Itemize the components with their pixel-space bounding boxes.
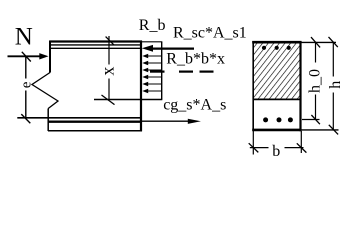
compressed rebar dots (262, 46, 291, 50)
cross-section hatch (compression zone) (254, 44, 300, 99)
stress arrow 2 (142, 61, 161, 66)
svg-text:R_b: R_b (139, 17, 166, 34)
tension steel force arrow cg_s*A_s (142, 119, 201, 124)
tick at right of b (297, 143, 307, 152)
tick at bottom of h (329, 125, 338, 135)
hatch bottom boundary (compression depth line) (253, 98, 301, 100)
tick at top of h_0 (311, 37, 320, 47)
dimension line h (332, 42, 334, 130)
tick at bottom of e dimension (21, 114, 30, 123)
break zigzag (32, 73, 58, 109)
column left edge lower (47, 109, 49, 132)
dashed leader under R_b*b*x (150, 70, 214, 72)
svg-text:R_sc*A_s1: R_sc*A_s1 (173, 25, 247, 42)
stress arrow 1 (142, 54, 161, 59)
tick at top of x dimension (106, 37, 114, 45)
tick at top of e dimension (22, 52, 31, 62)
column top plate (50, 42, 143, 49)
cross-section outline (252, 41, 301, 131)
column left edge upper (49, 41, 51, 73)
svg-text:R_b*b*x: R_b*b*x (166, 50, 225, 67)
svg-text:cg_s*A_s: cg_s*A_s (163, 96, 226, 113)
stress block right boundary (161, 42, 163, 100)
tick at left of b (249, 143, 259, 152)
svg-text:h: h (327, 81, 344, 89)
stress arrow 3 (142, 68, 161, 73)
stress arrow 5 (142, 82, 161, 87)
force arrow N (8, 53, 49, 59)
column right edge (140, 41, 142, 132)
compressed steel force arrow R_sc*A_s1 (142, 45, 194, 52)
x dimension line (108, 36, 110, 100)
stress arrow 4 (142, 75, 161, 80)
stress block bottom line (94, 99, 162, 101)
stress block top line (142, 41, 162, 43)
svg-text:x: x (97, 67, 117, 76)
svg-text:N: N (15, 24, 33, 51)
dimension line h_0 (315, 42, 317, 119)
b dimension line (250, 147, 304, 149)
rebar level extension line (302, 119, 320, 121)
column bottom plate (17, 118, 142, 131)
b dimension extension left (252, 131, 254, 155)
tension rebar dots (263, 117, 293, 122)
dimension line e (25, 56, 27, 118)
svg-text:h_0: h_0 (306, 69, 323, 93)
b dimension extension right (300, 131, 302, 153)
svg-text:b: b (272, 143, 280, 160)
stress arrow 6 (142, 89, 161, 94)
top extension line (302, 41, 337, 43)
tick at top of h (329, 37, 338, 47)
bottom extension line (302, 129, 339, 131)
tick at bottom of x dimension (102, 95, 115, 105)
tick at bottom of h_0 (311, 115, 320, 124)
